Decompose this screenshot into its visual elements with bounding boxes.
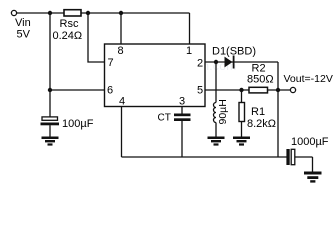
svg-text:850Ω: 850Ω	[247, 74, 274, 86]
svg-text:90µH: 90µH	[217, 99, 229, 124]
svg-text:8: 8	[118, 45, 124, 57]
svg-text:7: 7	[108, 57, 114, 69]
svg-text:Rsc: Rsc	[60, 18, 79, 30]
svg-text:3: 3	[179, 96, 185, 108]
svg-text:0.24Ω: 0.24Ω	[53, 30, 83, 42]
svg-text:5V: 5V	[17, 29, 31, 41]
svg-text:1000µF: 1000µF	[291, 136, 329, 148]
svg-text:R1: R1	[251, 106, 265, 118]
svg-text:5: 5	[197, 85, 203, 97]
svg-text:1: 1	[186, 45, 192, 57]
svg-text:8.2kΩ: 8.2kΩ	[247, 118, 276, 130]
svg-text:2: 2	[197, 58, 203, 70]
svg-text:4: 4	[119, 96, 125, 108]
svg-text:Vin: Vin	[15, 17, 31, 29]
svg-text:100µF: 100µF	[62, 118, 94, 130]
svg-text:D1(SBD): D1(SBD)	[212, 46, 256, 58]
svg-text:Vout=-12V: Vout=-12V	[284, 73, 333, 85]
svg-text:6: 6	[107, 85, 113, 97]
svg-text:CT: CT	[158, 113, 171, 124]
